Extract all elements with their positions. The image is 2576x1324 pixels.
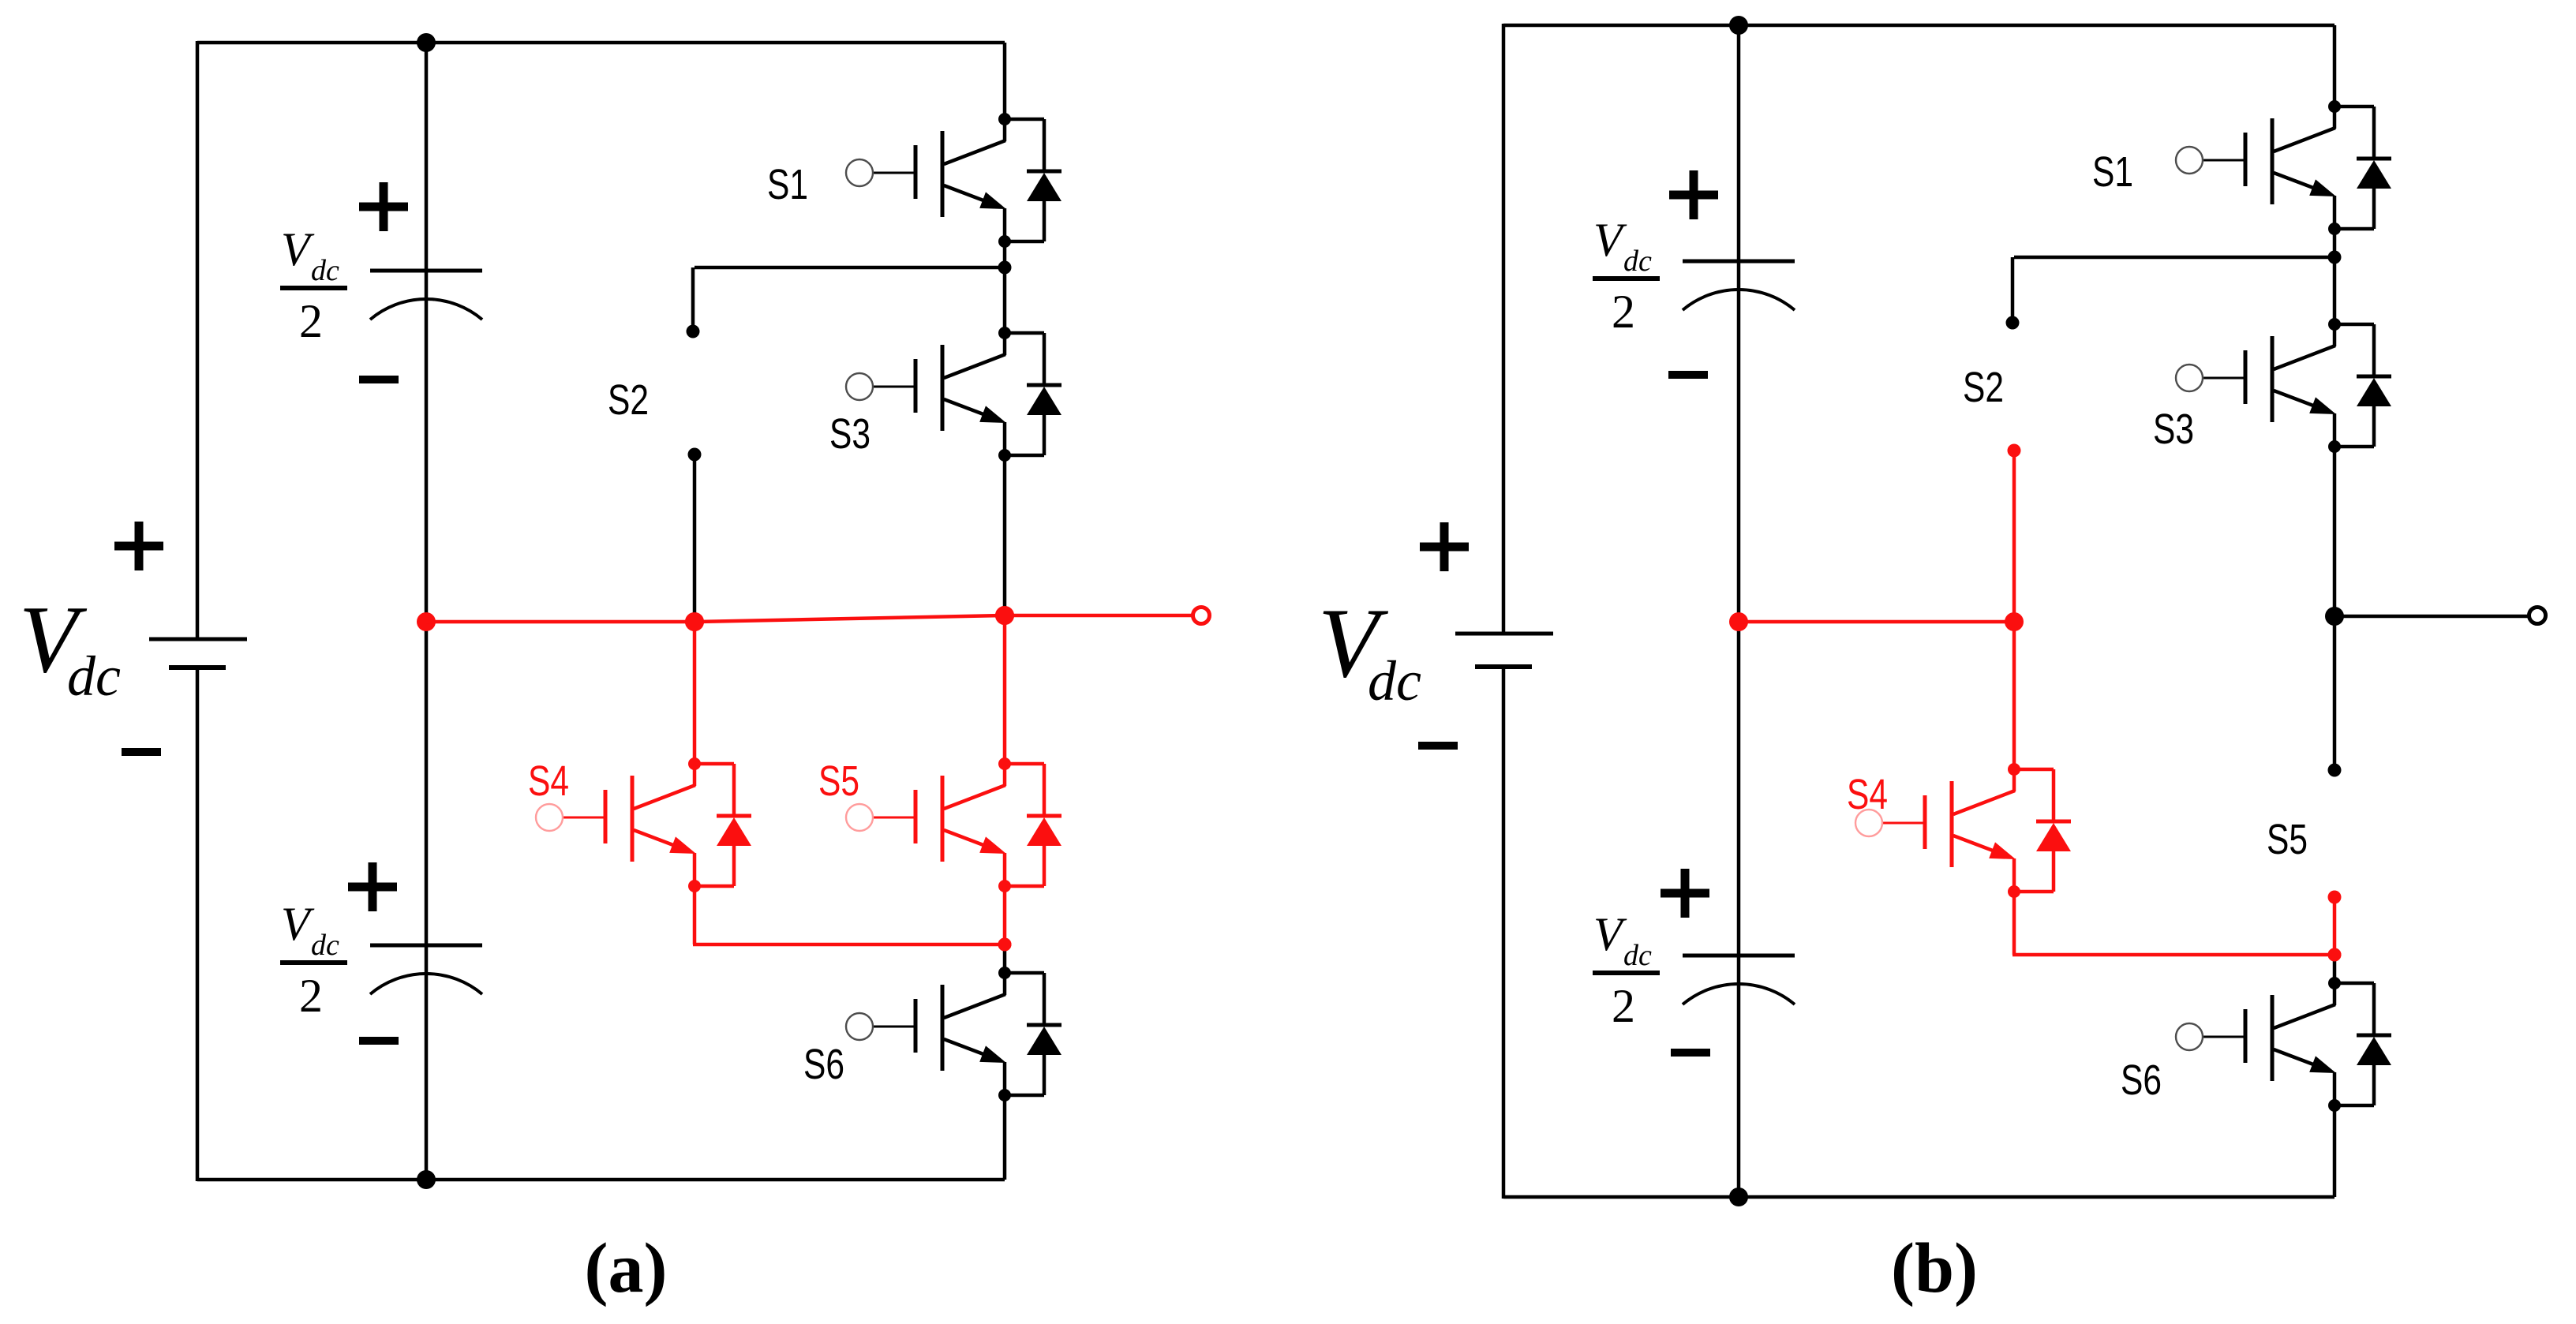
minus sign (battery negative terminal a)	[122, 748, 161, 756]
wire: S4 emitter elbow down (a)	[693, 886, 697, 944]
collector node dot of S3	[998, 327, 1011, 339]
emitter node dot of S5	[998, 880, 1011, 892]
transistor S4 (IGBT)	[536, 764, 696, 886]
svg-text:S4: S4	[1847, 771, 1888, 818]
emitter node dot of S3	[2328, 440, 2341, 453]
wire: red S5 lower lead up (b)	[2333, 897, 2337, 955]
node: switch S2 lower contact dot (a)	[688, 448, 702, 462]
wire: S2 horizontal link to S1/S3 midpoint (a)	[695, 266, 1005, 270]
wire: junction to S6 collector (a)	[1003, 944, 1007, 973]
minus sign (C1 negative a)	[359, 376, 399, 383]
svg-text:S3: S3	[829, 410, 871, 458]
wire: red link S4 emitter to S5 column (b)	[2012, 953, 2334, 957]
wire: junction to S6 collector (b)	[2333, 955, 2337, 983]
node: top bus junction dot (b)	[1729, 16, 1748, 35]
svg-text:(a): (a)	[585, 1229, 668, 1307]
capacitor C2 (b lower) curved bottom plate	[1683, 984, 1795, 1004]
wire: S5 upper lead from output node (b)	[2333, 616, 2337, 770]
minus sign (C2 negative b)	[1671, 1049, 1710, 1057]
node: switch S5 upper contact dot (b)	[2328, 764, 2342, 777]
output terminal circle (a)	[1193, 608, 1210, 624]
capacitor C1 (b upper) curved bottom plate	[1683, 290, 1795, 310]
wire: red output lead (a)	[1005, 614, 1192, 618]
capacitor C2 (a lower) curved bottom plate	[370, 974, 482, 994]
wire: red midline from S2 column to output node (a)	[695, 615, 1005, 622]
collector node dot of S6	[998, 967, 1011, 979]
antiparallel diode of S4	[695, 764, 751, 886]
wire: right column from top bus to S1 collector (b)	[2333, 25, 2337, 107]
svg-text:V: V	[1593, 908, 1627, 960]
output terminal circle (b)	[2529, 608, 2546, 624]
circuit (b): left wire upper segment	[1502, 24, 1506, 634]
capacitor C1 (a upper) curved bottom plate	[370, 299, 482, 320]
wire: S2 upper lead (a)	[691, 267, 695, 331]
circuit (a): bottom DC- bus wire	[197, 1178, 1005, 1182]
antiparallel diode of S1	[2334, 107, 2391, 229]
node: red junction dot above S6 (a)	[998, 938, 1012, 952]
antiparallel diode of S6	[1005, 973, 1061, 1095]
plus sign (battery positive terminal a)	[114, 522, 163, 570]
capacitor C2 (a lower) top plate	[370, 944, 482, 948]
collector node dot of S5	[998, 757, 1011, 770]
wire: red link S4 emitter to S5/S6 column (a)	[693, 943, 1005, 947]
emitter node dot of S4	[688, 880, 701, 892]
wire: red S2 lower lead down through midline to S4 collector (b)	[2012, 451, 2016, 769]
plus sign (C1 positive a)	[359, 182, 408, 231]
wire: red midline from midpoint to S2 column (a)	[426, 620, 695, 624]
collector node dot of S3	[2328, 318, 2341, 331]
collector node dot of S1	[2328, 100, 2341, 113]
svg-text:S5: S5	[818, 757, 859, 805]
wire: S1 emitter to S3 collector (a)	[1003, 241, 1007, 333]
minus sign (C1 negative b)	[1668, 371, 1708, 379]
svg-text:dc: dc	[67, 645, 121, 708]
emitter node dot of S1	[998, 235, 1011, 248]
emitter node dot of S1	[2328, 223, 2341, 235]
svg-text:S4: S4	[528, 757, 569, 805]
svg-text:2: 2	[1612, 286, 1635, 338]
antiparallel diode of S1	[1005, 119, 1061, 241]
wire: S4 emitter elbow down (b)	[2012, 892, 2016, 955]
svg-text:V: V	[281, 223, 315, 275]
collector node dot of S6	[2328, 977, 2341, 989]
antiparallel diode of S6	[2334, 983, 2391, 1105]
wire: S5 emitter down to red junction (a)	[1003, 886, 1007, 944]
node overlay: red junction dot below S5 (b)	[2328, 948, 2342, 962]
node: DC midpoint dot on capacitor branch (b) - red	[1729, 612, 1748, 631]
svg-text:V: V	[1593, 214, 1627, 266]
wire: red midline from midpoint to S2 column (b)	[1739, 620, 2014, 624]
wire: S6 emitter to bottom bus (b)	[2333, 1105, 2337, 1197]
node: output junction dot (b)	[2325, 607, 2344, 626]
wire: red branch from midline junction down to S4 collector (a)	[693, 622, 697, 764]
node: bottom bus junction dot (b)	[1729, 1187, 1748, 1206]
value label Vdc/2 (b upper)	[1593, 214, 1660, 338]
capacitor C1 (a upper) top plate	[370, 269, 482, 273]
plus sign (C2 positive a)	[348, 862, 397, 911]
node: switch S2 upper contact dot (a)	[687, 325, 700, 338]
transistor S6 (IGBT)	[846, 973, 1006, 1095]
value label Vdc/2 (a lower)	[280, 898, 347, 1022]
svg-text:S6: S6	[803, 1041, 844, 1088]
wire: output lead (b)	[2334, 615, 2529, 619]
capacitor C2 (b lower) top plate	[1683, 954, 1795, 958]
circuit (a): capacitor branch vertical wire	[425, 43, 429, 1180]
circuit (b): top DC+ bus wire	[1503, 24, 2334, 28]
value label Vdc/2 (b lower)	[1593, 908, 1660, 1032]
svg-text:2: 2	[1612, 980, 1635, 1032]
node: top bus junction dot (a)	[417, 33, 436, 52]
plus sign (C2 positive b)	[1661, 869, 1709, 918]
node overlay: output junction dot (a) - red	[995, 606, 1014, 625]
node: switch S2 upper contact dot (b)	[2006, 316, 2020, 330]
svg-text:S2: S2	[1963, 364, 2004, 411]
svg-text:V: V	[281, 898, 315, 950]
emitter node dot of S6	[2328, 1099, 2341, 1112]
capacitor C1 (b upper) top plate	[1683, 260, 1795, 264]
node: red junction dot at S2 column on midline (a)	[685, 612, 704, 631]
svg-text:dc: dc	[1623, 939, 1652, 972]
circuit (b): left wire lower segment	[1502, 667, 1506, 1199]
emitter node dot of S3	[998, 449, 1011, 462]
wire: S3 emitter to output node (b)	[2333, 447, 2337, 616]
wire: S3 emitter to output node (a)	[1003, 455, 1007, 615]
plus sign (battery positive terminal b)	[1420, 522, 1469, 571]
node overlay: red junction dot above S6 (a)	[998, 938, 1012, 952]
transistor S6 (IGBT)	[2176, 983, 2336, 1105]
svg-text:S1: S1	[2092, 148, 2133, 196]
svg-text:2: 2	[299, 295, 323, 347]
node: red junction dot at S2 column on midline (b)	[2005, 612, 2024, 631]
antiparallel diode of S3	[1005, 333, 1061, 455]
node: red junction dot below S5 (b)	[2328, 948, 2342, 962]
svg-text:S2: S2	[608, 376, 649, 424]
svg-text:dc: dc	[1623, 245, 1652, 278]
battery Vdc short plate (a)	[169, 665, 226, 670]
wire: S2 lower lead down to midline (a)	[693, 454, 697, 622]
circuit (a): top DC+ bus wire	[197, 41, 1005, 45]
collector node dot of S4	[688, 757, 701, 770]
antiparallel diode of S5	[1005, 764, 1061, 886]
emitter node dot of S6	[998, 1089, 1011, 1101]
emitter node dot of S4	[2008, 885, 2020, 898]
node: switch S2 lower contact dot (b) - red	[2008, 444, 2021, 458]
antiparallel diode of S4	[2014, 769, 2071, 892]
svg-text:dc: dc	[1368, 649, 1421, 712]
wire: red branch from output node down to S5 collector (a)	[1003, 615, 1007, 764]
svg-text:(b): (b)	[1891, 1229, 1978, 1307]
transistor S4 (IGBT)	[1855, 769, 2016, 892]
collector node dot of S4	[2008, 763, 2020, 776]
transistor S1 (IGBT)	[2176, 107, 2336, 229]
plus sign (C1 positive b)	[1669, 170, 1718, 219]
minus sign (battery negative terminal b)	[1418, 742, 1458, 750]
svg-text:dc: dc	[311, 929, 339, 962]
node: DC midpoint dot on capacitor branch (a) - red	[417, 612, 436, 631]
svg-text:S3: S3	[2153, 406, 2194, 453]
circuit (a): left wire lower segment (battery to bottom bus)	[196, 668, 200, 1181]
collector node dot of S1	[998, 113, 1011, 125]
node: output junction dot (a) - red	[995, 606, 1014, 625]
circuit (a): left wire upper segment (DC source to top bus)	[196, 41, 200, 639]
wire: right column from top bus to S1 collector (a)	[1003, 43, 1007, 119]
minus sign (C2 negative a)	[359, 1037, 399, 1045]
wire: S1 emitter to S3 collector (b)	[2333, 229, 2337, 324]
value label Vdc/2 (a upper)	[280, 223, 347, 347]
svg-text:dc: dc	[311, 254, 339, 287]
svg-text:S5: S5	[2267, 816, 2308, 863]
antiparallel diode of S3	[2334, 324, 2391, 447]
transistor S1 (IGBT)	[846, 119, 1006, 241]
node: junction dot between S1 and S3 (a)	[998, 261, 1012, 275]
svg-text:S6: S6	[2121, 1057, 2162, 1104]
circuit (b): capacitor branch vertical wire	[1737, 25, 1741, 1197]
battery Vdc long plate (a)	[149, 638, 247, 641]
battery Vdc long plate (b)	[1455, 632, 1553, 636]
node: junction dot between S1 and S3 (b)	[2328, 251, 2342, 264]
transistor S3 (IGBT)	[2176, 324, 2336, 447]
circuit (b): bottom DC- bus wire	[1503, 1195, 2334, 1199]
node: bottom bus junction dot (a)	[417, 1170, 436, 1189]
node: switch S5 lower contact dot (b) - red	[2328, 891, 2342, 904]
wire: S2 upper lead (b)	[2011, 257, 2015, 323]
wire: S2 horizontal link to S1/S3 midpoint (b)	[2014, 256, 2334, 260]
wire: S6 emitter to bottom bus (a)	[1003, 1095, 1007, 1180]
svg-text:2: 2	[299, 970, 323, 1022]
battery Vdc short plate (b)	[1475, 664, 1532, 669]
transistor S3 (IGBT)	[846, 333, 1006, 455]
node overlay: red junction dot at S2 column on midline (a)	[685, 612, 704, 631]
svg-text:S1: S1	[767, 161, 808, 208]
transistor S5 (IGBT)	[846, 764, 1006, 886]
